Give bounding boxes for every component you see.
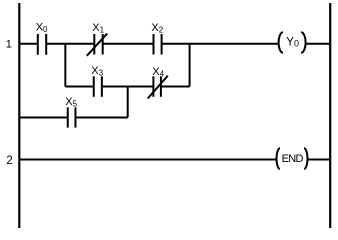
coil END (277, 148, 308, 169)
wire branch row3: left rail to X5 (19, 117, 67, 119)
wire rung2: END coil to right rail (307, 159, 330, 161)
node J2 branch wire up from X4 row (189, 44, 191, 87)
svg-text:END: END (282, 153, 304, 165)
contact X4 bars (NC) (148, 76, 168, 99)
coil Y0 (279, 32, 306, 53)
node J3 branch wire down to X5 row (127, 87, 129, 118)
svg-text:X5: X5 (65, 96, 77, 109)
svg-text:X2: X2 (151, 22, 163, 35)
contact X5 bars (68, 107, 76, 127)
svg-text:X4: X4 (152, 66, 164, 79)
right power rail (329, 3, 331, 228)
wire branch row2: X3 to X4 (102, 86, 154, 88)
wire branch row2: X4 to J2 (161, 86, 190, 88)
contact X2 bars (154, 34, 162, 55)
contact X3 bars (94, 76, 102, 97)
wire rung1: X2 to coil Y0 (162, 43, 279, 45)
svg-text:X1: X1 (92, 22, 104, 35)
contact X1 bars (NC) (87, 34, 107, 56)
svg-text:2: 2 (6, 155, 12, 167)
wire rung1: X1 to X2 (103, 43, 154, 45)
svg-text:X0: X0 (36, 21, 48, 34)
node J1 branch wire down to X3 row (64, 44, 66, 87)
wire rung2: left rail to END coil (19, 159, 277, 161)
svg-text:X3: X3 (91, 65, 103, 78)
svg-text:Y0: Y0 (286, 36, 299, 48)
left power rail (18, 3, 20, 228)
svg-text:1: 1 (6, 39, 12, 51)
contact X0 bars (38, 34, 46, 55)
wire branch row3: X5 to J3 (75, 117, 127, 119)
wire rung1: left rail to X0 (19, 43, 38, 45)
wire branch row2: J1 to X3 (65, 86, 93, 88)
wire rung1: coil Y0 to right rail (306, 43, 330, 45)
wire rung1: X0 to X1 (46, 43, 94, 45)
